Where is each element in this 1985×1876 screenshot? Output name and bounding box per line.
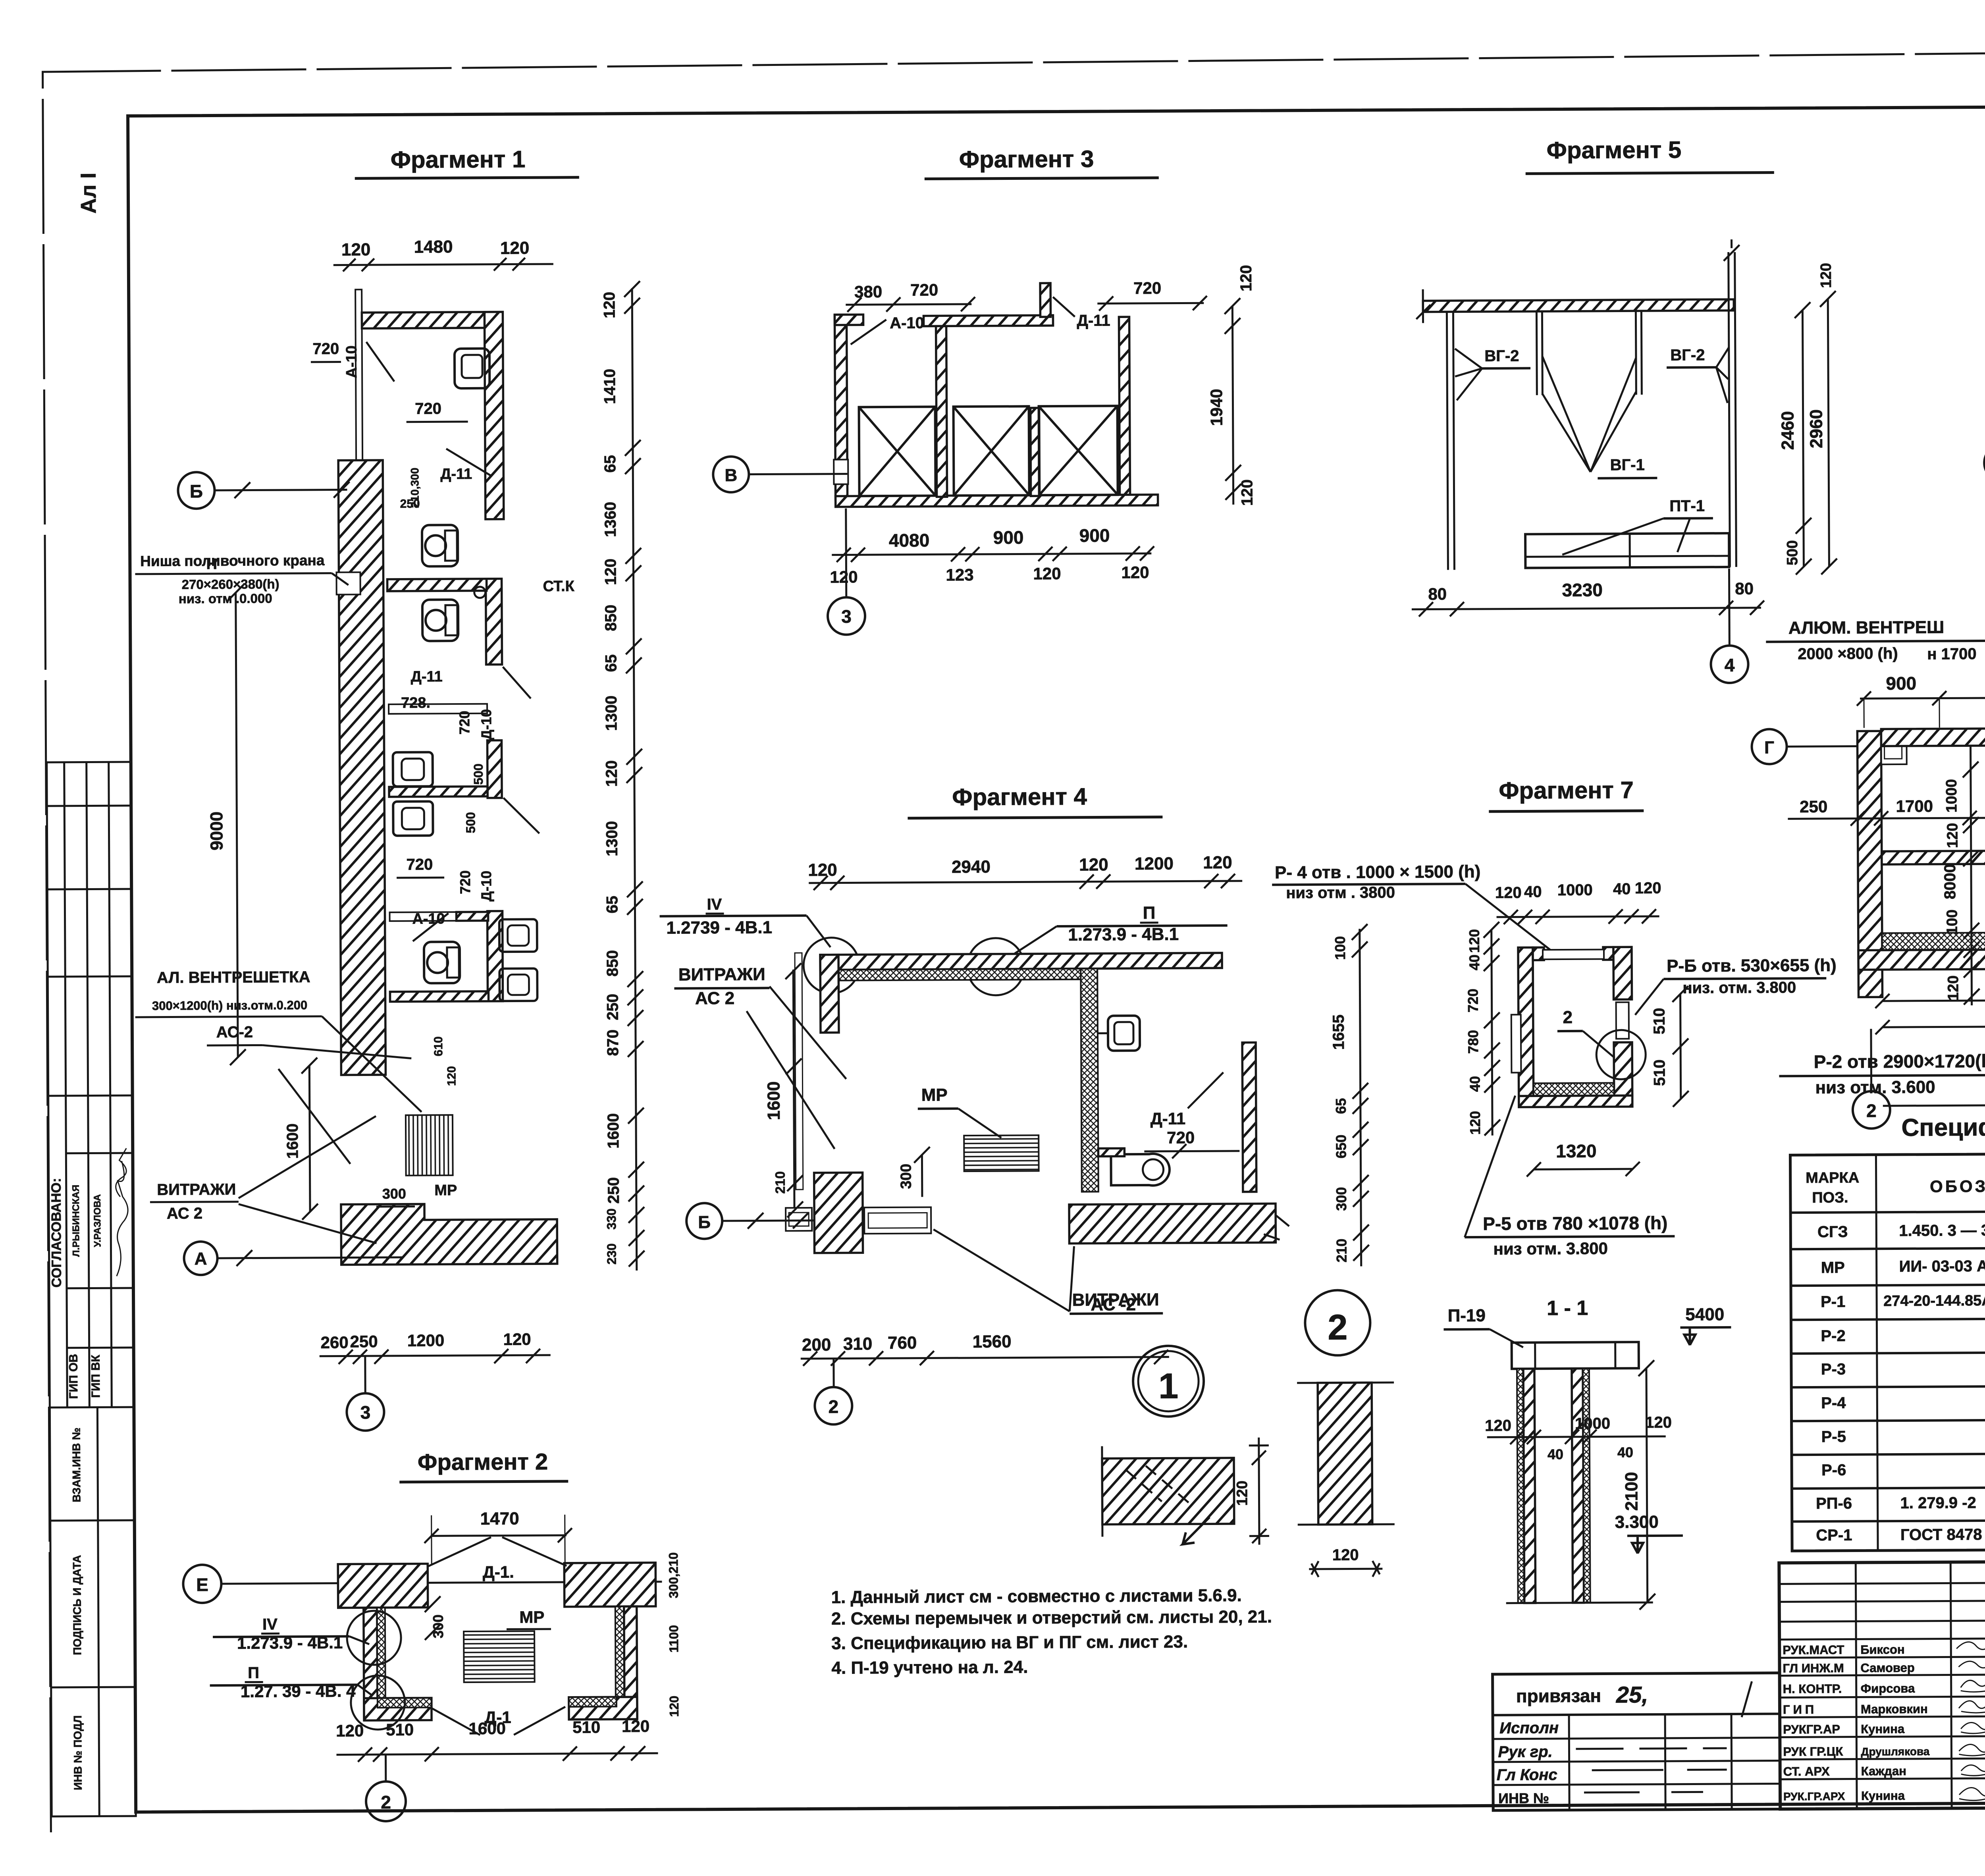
mid slab (1882, 849, 1985, 864)
svg-text:Фрагмент 4: Фрагмент 4 (952, 783, 1087, 811)
svg-text:1700: 1700 (1896, 797, 1933, 816)
top walls (338, 1564, 428, 1608)
svg-text:низ. отм. 3.800: низ. отм. 3.800 (1682, 979, 1796, 997)
main left bearing wall (338, 460, 385, 1075)
far left chain (1360, 929, 1361, 1266)
svg-text:1000: 1000 (1557, 881, 1593, 899)
svg-text:Д-11: Д-11 (411, 668, 443, 685)
svg-text:120: 120 (603, 760, 621, 787)
bottom left pier (814, 1172, 863, 1253)
svg-text:1600: 1600 (764, 1081, 784, 1120)
left wall (1857, 731, 1882, 997)
right wall (1119, 317, 1130, 496)
svg-text:1.2739 - 4В.1: 1.2739 - 4В.1 (666, 918, 772, 937)
niche in left wall (834, 459, 848, 484)
svg-text:Е: Е (196, 1574, 208, 1595)
Б axis bubble (178, 472, 214, 509)
svg-text:120: 120 (445, 1066, 458, 1086)
svg-text:120: 120 (1203, 853, 1232, 872)
svg-text:40: 40 (1466, 954, 1482, 970)
svg-text:120: 120 (1332, 1546, 1359, 1564)
svg-text:500: 500 (471, 764, 486, 785)
svg-text:300: 300 (1333, 1187, 1349, 1211)
svg-text:Фрагмент 7: Фрагмент 7 (1499, 777, 1634, 804)
svg-text:120: 120 (1238, 479, 1256, 506)
svg-text:1000: 1000 (1943, 779, 1960, 813)
svg-text:Б: Б (190, 481, 203, 501)
svg-text:510: 510 (1651, 1008, 1668, 1034)
svg-text:А: А (195, 1249, 207, 1269)
svg-text:65: 65 (603, 896, 621, 914)
svg-text:1 - 1: 1 - 1 (1547, 1297, 1588, 1320)
bottom footing (341, 1203, 557, 1265)
bottom right base (1069, 1203, 1276, 1243)
svg-text:ПОЗ.: ПОЗ. (1812, 1190, 1848, 1206)
svg-text:900: 900 (1079, 525, 1110, 546)
svg-text:СГЗ: СГЗ (1817, 1223, 1848, 1241)
detail circle 1 (1133, 1346, 1204, 1417)
svg-text:510: 510 (572, 1718, 600, 1736)
svg-text:АЛ. ВЕНТРЕШЕТКА: АЛ. ВЕНТРЕШЕТКА (157, 968, 310, 987)
right wall segments lower (486, 579, 502, 665)
right pier (1242, 1043, 1257, 1192)
svg-text:Кунина: Кунина (1861, 1789, 1905, 1803)
Г axis (1984, 444, 1985, 482)
svg-text:Фрагмент 5: Фрагмент 5 (1547, 137, 1682, 164)
svg-text:1.273.9 - 4В.1: 1.273.9 - 4В.1 (1068, 925, 1179, 945)
MP grate (464, 1631, 535, 1682)
svg-text:ПОДПИСЬ И ДАТА: ПОДПИСЬ И ДАТА (71, 1555, 83, 1655)
svg-text:120: 120 (1033, 564, 1061, 583)
svg-text:РУК ГР.ЦК: РУК ГР.ЦК (1783, 1745, 1843, 1759)
svg-text:1560: 1560 (973, 1332, 1012, 1352)
svg-text:250: 250 (400, 497, 420, 511)
svg-text:8000: 8000 (1941, 864, 1959, 899)
detail 1 drawing (1102, 1458, 1234, 1525)
svg-text:Р-2 отв 2900×1720(h): Р-2 отв 2900×1720(h) (1814, 1051, 1985, 1072)
svg-text:120: 120 (1121, 563, 1149, 582)
svg-text:АС-2: АС-2 (216, 1024, 253, 1041)
svg-text:Д-10: Д-10 (478, 709, 494, 740)
svg-text:260: 260 (320, 1333, 348, 1352)
svg-text:ПТ-1: ПТ-1 (1669, 497, 1705, 515)
horizontal partitions (387, 579, 487, 591)
detail circle 2 (1305, 1290, 1370, 1355)
svg-text:210: 210 (1333, 1239, 1349, 1263)
svg-text:1410: 1410 (601, 369, 619, 404)
door swing diagonals (366, 342, 394, 382)
svg-text:850: 850 (604, 950, 621, 977)
svg-text:900: 900 (993, 527, 1024, 548)
svg-text:3. Спецификацию на ВГ и: 3. Спецификацию на ВГ и ПГ см. лист 23. (831, 1632, 1188, 1653)
svg-text:120: 120 (1466, 929, 1482, 953)
svg-text:650: 650 (1333, 1135, 1349, 1159)
svg-text:Р-3: Р-3 (1821, 1361, 1846, 1378)
svg-text:привязан: привязан (1516, 1685, 1601, 1706)
svg-text:900: 900 (1886, 673, 1916, 694)
svg-text:П: П (248, 1664, 259, 1681)
mid partition (936, 326, 947, 497)
svg-text:120: 120 (1485, 1417, 1511, 1434)
svg-text:250: 250 (605, 1177, 622, 1204)
svg-text:Н. КОНТР.: Н. КОНТР. (1783, 1682, 1842, 1696)
svg-text:Биксон: Биксон (1860, 1643, 1905, 1657)
svg-text:870: 870 (604, 1030, 622, 1056)
svg-text:Р-6: Р-6 (1821, 1461, 1846, 1479)
svg-text:Марковкин: Марковкин (1861, 1702, 1928, 1716)
svg-text:У.РАЗЛОВА: У.РАЗЛОВА (92, 1194, 103, 1247)
svg-text:120: 120 (1495, 884, 1522, 901)
svg-text:65: 65 (1333, 1098, 1349, 1114)
svg-text:210: 210 (773, 1171, 788, 1194)
svg-text:ОБОЗНАЧЕНИЕ: ОБОЗНАЧЕНИЕ (1930, 1176, 1985, 1196)
svg-text:65: 65 (602, 654, 620, 672)
svg-text:АС 2: АС 2 (695, 989, 734, 1008)
svg-text:Д-11: Д-11 (1151, 1109, 1186, 1128)
svg-text:Р-4: Р-4 (1821, 1394, 1846, 1412)
svg-text:низ отм . 3800: низ отм . 3800 (1286, 884, 1395, 902)
svg-text:Фрагмент 1: Фрагмент 1 (391, 146, 526, 173)
svg-text:IV: IV (262, 1616, 278, 1633)
svg-text:низ отм. 3.800: низ отм. 3.800 (1493, 1239, 1608, 1258)
svg-text:780: 780 (1465, 1030, 1481, 1054)
fixtures: toilets and sinks (422, 525, 458, 566)
corner block with window (1881, 737, 1906, 764)
svg-text:1.450. 3 — 3 л.54: 1.450. 3 — 3 л.54 (1899, 1222, 1985, 1240)
svg-text:Р-2: Р-2 (1821, 1327, 1845, 1345)
bench (1525, 533, 1729, 568)
svg-text:760: 760 (888, 1333, 917, 1353)
svg-text:Д-10: Д-10 (478, 871, 494, 902)
svg-text:120: 120 (830, 567, 858, 586)
MP grate bottom (406, 1115, 453, 1176)
svg-text:120: 120 (601, 292, 618, 318)
svg-text:250: 250 (1800, 797, 1827, 816)
svg-text:Кунина: Кунина (1861, 1722, 1905, 1736)
right wall upper segment (484, 312, 503, 519)
right vertical wall (615, 1606, 624, 1718)
svg-text:Р-1: Р-1 (1821, 1293, 1845, 1311)
Г axis bubble (1752, 729, 1786, 764)
svg-text:120: 120 (1945, 976, 1962, 1001)
svg-text:ВИТРАЖИ: ВИТРАЖИ (678, 964, 765, 984)
svg-text:Р- 4 отв . 1000 × 1500 (h): Р- 4 отв . 1000 × 1500 (h) (1275, 862, 1481, 882)
svg-text:1470: 1470 (480, 1509, 519, 1528)
svg-text:Фрагмент 2: Фрагмент 2 (418, 1449, 548, 1475)
Б bubble (686, 1203, 722, 1239)
svg-text:2000 ×800 (h): 2000 ×800 (h) (1798, 645, 1898, 663)
svg-text:СР-1: СР-1 (1816, 1527, 1852, 1544)
svg-text:Д-11: Д-11 (1077, 312, 1110, 329)
svg-text:120: 120 (503, 1330, 531, 1348)
svg-text:120: 120 (1818, 263, 1835, 288)
svg-text:ВИТРАЖИ: ВИТРАЖИ (157, 1181, 236, 1199)
svg-text:Ниша поливочного крана: Ниша поливочного крана (140, 552, 325, 569)
svg-text:2: 2 (828, 1396, 838, 1417)
svg-text:1. Данный лист см - совмес: 1. Данный лист см - совместно с листами … (831, 1586, 1242, 1607)
svg-text:ГИП ВК: ГИП ВК (89, 1354, 103, 1398)
svg-text:ВГ-2: ВГ-2 (1484, 347, 1519, 365)
svg-text:610: 610 (432, 1036, 445, 1056)
svg-text:40: 40 (1548, 1446, 1563, 1462)
svg-text:АС 2: АС 2 (167, 1205, 202, 1222)
svg-text:3: 3 (841, 606, 852, 627)
svg-text:1100: 1100 (667, 1625, 681, 1653)
svg-text:ИИ- 03-03 АЛ.66 71-64: ИИ- 03-03 АЛ.66 71-64 (1899, 1257, 1985, 1275)
svg-text:120: 120 (1237, 265, 1255, 291)
svg-text:СТ. АРХ: СТ. АРХ (1783, 1764, 1830, 1779)
svg-text:Самовер: Самовер (1860, 1661, 1914, 1675)
svg-text:1600: 1600 (468, 1719, 506, 1738)
ceiling beam (1423, 299, 1734, 312)
svg-text:П: П (1143, 903, 1156, 923)
svg-text:1. 279.9 -2: 1. 279.9 -2 (1900, 1494, 1976, 1512)
svg-text:720: 720 (910, 280, 938, 299)
svg-text:Д-11: Д-11 (440, 466, 472, 482)
svg-text:1940: 1940 (1207, 389, 1226, 426)
svg-text:380: 380 (854, 282, 882, 301)
door stub (1098, 1148, 1124, 1156)
svg-text:720: 720 (1465, 989, 1481, 1012)
1600 dim (309, 1066, 310, 1212)
svg-text:1655: 1655 (1330, 1014, 1347, 1050)
svg-text:250: 250 (604, 994, 621, 1020)
left vertical wall (364, 1608, 378, 1720)
detail circles on left wall (347, 1611, 401, 1665)
svg-text:МР: МР (1821, 1259, 1845, 1276)
svg-text:низ отм. 3.600: низ отм. 3.600 (1815, 1078, 1935, 1097)
svg-text:Р-5: Р-5 (1821, 1428, 1846, 1446)
detail 2 drawing (1318, 1382, 1372, 1525)
right interior partition (1081, 969, 1098, 1192)
svg-text:IV: IV (707, 896, 722, 913)
svg-text:120: 120 (622, 1717, 649, 1735)
left stamp sidebar grid (47, 762, 136, 1816)
svg-text:720: 720 (1133, 279, 1161, 297)
svg-text:120: 120 (1944, 823, 1961, 848)
9000 dim (236, 593, 238, 1057)
svg-text:Д-1.: Д-1. (483, 1562, 514, 1581)
svg-text:2: 2 (1866, 1100, 1877, 1121)
svg-text:Р-5 отв 780 ×1078 (h): Р-5 отв 780 ×1078 (h) (1483, 1213, 1667, 1234)
shaft walls (1518, 947, 1534, 1101)
svg-text:А-10: А-10 (890, 314, 924, 332)
svg-text:300: 300 (382, 1186, 406, 1202)
top wall hatched (362, 312, 489, 329)
svg-text:720: 720 (415, 400, 441, 417)
svg-text:25,: 25, (1616, 1682, 1648, 1708)
svg-text:3: 3 (360, 1402, 371, 1423)
4 bubble (1728, 569, 1731, 644)
svg-text:Гл Конс: Гл Конс (1497, 1766, 1557, 1784)
svg-text:1200: 1200 (1135, 854, 1174, 873)
signatures squiggles (1956, 1633, 1985, 1801)
svg-text:2100: 2100 (1622, 1472, 1641, 1511)
svg-text:2: 2 (381, 1792, 391, 1812)
top mid wall (923, 315, 1053, 326)
svg-text:ГОСТ 8478 -81: ГОСТ 8478 -81 (1900, 1526, 1985, 1544)
svg-text:4. П-19 учтено на л.: 4. П-19 учтено на л. 24. (831, 1657, 1028, 1677)
svg-text:510: 510 (386, 1720, 414, 1739)
svg-text:120: 120 (336, 1721, 364, 1740)
MP grate (964, 1135, 1039, 1171)
right dimension chain (632, 288, 637, 1271)
svg-text:низ. отм .0.000: низ. отм .0.000 (179, 591, 272, 606)
top beam (1881, 727, 1985, 746)
svg-text:120: 120 (602, 559, 619, 585)
bubbles 2 and 3 (1870, 1029, 1872, 1091)
svg-text:В: В (725, 466, 737, 485)
svg-text:100: 100 (1944, 910, 1961, 935)
svg-text:100: 100 (1332, 936, 1348, 960)
svg-text:2: 2 (1328, 1308, 1348, 1348)
svg-text:1: 1 (1158, 1367, 1179, 1406)
svg-text:300×1200(h) низ.отм.0.200: 300×1200(h) низ.отм.0.200 (152, 998, 307, 1013)
svg-text:40: 40 (1617, 1444, 1633, 1460)
top slab (1512, 1342, 1639, 1369)
svg-text:120: 120 (1635, 879, 1661, 897)
top stub column (1040, 283, 1050, 317)
bottom wall (836, 495, 1158, 507)
svg-text:1300: 1300 (603, 696, 620, 731)
svg-text:РУК.ГР.АРХ: РУК.ГР.АРХ (1783, 1790, 1845, 1803)
svg-text:728.: 728. (401, 694, 430, 711)
svg-text:720: 720 (312, 340, 339, 358)
svg-text:2460: 2460 (1778, 411, 1798, 450)
svg-text:МР: МР (921, 1085, 948, 1105)
svg-text:РУК.МАСТ: РУК.МАСТ (1783, 1643, 1844, 1657)
svg-text:РУКГР.АР: РУКГР.АР (1783, 1722, 1840, 1737)
svg-text:Фирсова: Фирсова (1861, 1681, 1915, 1696)
svg-text:АЛЮМ. ВЕНТРЕШ: АЛЮМ. ВЕНТРЕШ (1788, 617, 1945, 638)
svg-text:274-20-144.85АС1.ИЗ.01.00: 274-20-144.85АС1.ИЗ.01.00 (1883, 1292, 1985, 1309)
A axis bubble (184, 1242, 217, 1275)
svg-text:5400: 5400 (1685, 1305, 1724, 1324)
niche notch in wall (336, 572, 360, 594)
svg-text:250: 250 (350, 1332, 378, 1351)
svg-text:Спецификация металлических и: Спецификация металлических изделий (1901, 1112, 1985, 1141)
svg-text:ГИП ОВ: ГИП ОВ (67, 1354, 81, 1399)
svg-text:720: 720 (456, 711, 472, 735)
svg-text:Каждан: Каждан (1861, 1764, 1906, 1778)
svg-text:510: 510 (1651, 1059, 1668, 1086)
right dims (1232, 306, 1233, 505)
vitrage double line (795, 953, 803, 1190)
svg-text:2940: 2940 (952, 857, 991, 877)
svg-text:1480: 1480 (414, 237, 453, 256)
svg-text:Исполн: Исполн (1499, 1719, 1559, 1737)
svg-text:3.300: 3.300 (1615, 1512, 1659, 1532)
svg-text:Л.РЫБИНСКАЯ: Л.РЫБИНСКАЯ (71, 1185, 82, 1257)
svg-text:Р-Б отв. 530×655 (h): Р-Б отв. 530×655 (h) (1667, 956, 1837, 976)
svg-text:330: 330 (604, 1209, 619, 1230)
svg-text:Фрагмент 3: Фрагмент 3 (959, 146, 1094, 173)
svg-text:РП-6: РП-6 (1816, 1495, 1852, 1512)
partition line above wall (355, 289, 362, 463)
svg-text:40: 40 (1467, 1076, 1483, 1092)
svg-text:2. Схемы перемычек и отв: 2. Схемы перемычек и отверстий см. листы… (831, 1607, 1272, 1628)
svg-text:80: 80 (1428, 584, 1447, 603)
svg-text:МР: МР (519, 1608, 544, 1626)
svg-text:1600: 1600 (284, 1123, 301, 1159)
svg-text:80: 80 (1735, 579, 1754, 598)
svg-text:1360: 1360 (602, 502, 619, 537)
svg-text:1000: 1000 (1575, 1415, 1610, 1432)
svg-text:Г: Г (1764, 738, 1774, 757)
svg-text:4: 4 (1725, 655, 1735, 675)
ВГ-1 converging diagonals (1542, 356, 1636, 472)
svg-text:120: 120 (1467, 1111, 1483, 1135)
svg-text:ГЛ ИНЖ.М: ГЛ ИНЖ.М (1783, 1661, 1844, 1675)
svg-text:СТ.К: СТ.К (543, 578, 575, 595)
svg-text:300,210: 300,210 (666, 1552, 681, 1598)
svg-text:720: 720 (406, 856, 433, 873)
svg-text:А-10: А-10 (412, 910, 445, 927)
floor strips (1882, 931, 1985, 951)
svg-text:ИНВ № ПОДЛ: ИНВ № ПОДЛ (71, 1715, 84, 1790)
svg-text:АС -2: АС -2 (1091, 1295, 1136, 1315)
svg-text:40: 40 (1524, 883, 1542, 900)
detail circles (804, 937, 860, 993)
svg-text:120: 120 (667, 1696, 681, 1717)
top wall (820, 953, 1222, 970)
svg-text:300: 300 (898, 1164, 914, 1189)
svg-text:500: 500 (463, 812, 478, 833)
signature rows (1783, 1643, 1930, 1803)
axis bubbles (713, 457, 749, 492)
svg-text:9000: 9000 (207, 812, 226, 850)
svg-text:850: 850 (602, 605, 620, 631)
svg-text:123: 123 (946, 565, 973, 584)
svg-text:310: 310 (843, 1334, 873, 1353)
svg-text:65: 65 (601, 455, 619, 473)
svg-text:ВГ-2: ВГ-2 (1670, 346, 1705, 364)
svg-text:СОГЛАСОВАНО:: СОГЛАСОВАНО: (49, 1178, 64, 1288)
svg-text:120: 120 (341, 240, 371, 259)
svg-text:40: 40 (1613, 880, 1631, 898)
left wall (834, 314, 847, 499)
right dims (1802, 310, 1804, 567)
svg-text:1320: 1320 (1556, 1141, 1597, 1161)
svg-text:720: 720 (1167, 1128, 1195, 1147)
svg-text:А-10: А-10 (343, 345, 360, 378)
svg-text:1200: 1200 (407, 1331, 445, 1350)
svg-text:ВЗАМ.ИНВ №: ВЗАМ.ИНВ № (70, 1427, 83, 1502)
left inner chain (1492, 930, 1492, 1136)
svg-text:3230: 3230 (1562, 580, 1603, 600)
right 510 dims (1680, 994, 1681, 1099)
svg-text:ГИП: ГИП (1783, 1702, 1817, 1716)
svg-text:120: 120 (1645, 1414, 1672, 1431)
posts (1447, 252, 1736, 570)
svg-text:ВГ-1: ВГ-1 (1610, 456, 1645, 474)
svg-text:4080: 4080 (889, 530, 930, 551)
svg-text:н 1700: н 1700 (1927, 645, 1976, 663)
svg-text:120: 120 (808, 860, 837, 880)
svg-text:1300: 1300 (603, 821, 621, 856)
svg-text:720: 720 (457, 870, 473, 894)
svg-text:2: 2 (1563, 1008, 1573, 1027)
X boxes (859, 406, 1118, 496)
svg-text:П-19: П-19 (1448, 1306, 1486, 1325)
svg-text:ИНВ №: ИНВ № (1498, 1790, 1549, 1807)
svg-text:1600: 1600 (605, 1113, 622, 1149)
svg-text:2960: 2960 (1807, 409, 1826, 448)
svg-text:270×260×380(h): 270×260×380(h) (182, 576, 279, 592)
svg-text:Друшлякова: Друшлякова (1861, 1745, 1929, 1758)
E axis (183, 1565, 221, 1603)
svg-text:Рук гр.: Рук гр. (1498, 1743, 1552, 1761)
